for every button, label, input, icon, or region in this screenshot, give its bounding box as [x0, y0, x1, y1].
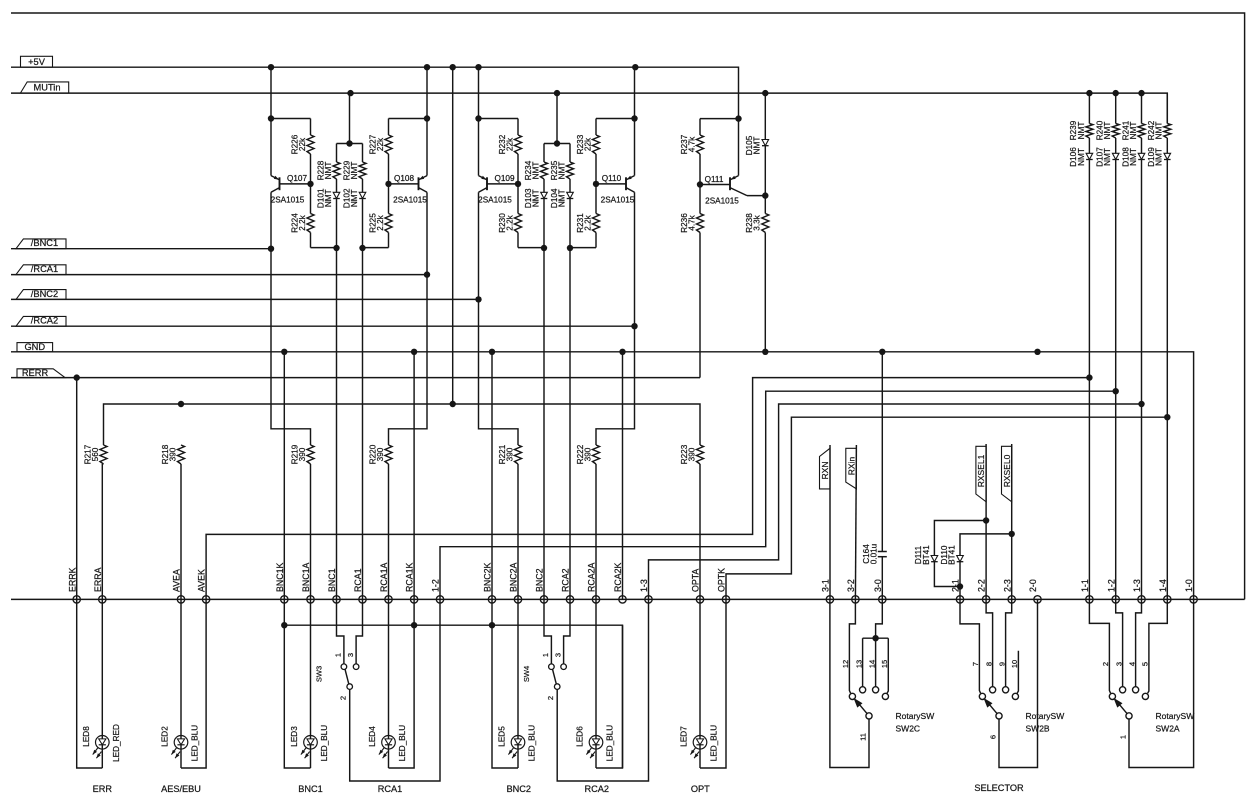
svg-text:22k: 22k [376, 137, 385, 151]
svg-text:2: 2 [546, 696, 555, 700]
wire MUTin drop to R228/R229 tie [337, 93, 363, 143]
wire R241 drop from MUTin [1141, 93, 1143, 123]
label RotarySW SW2C [896, 711, 935, 734]
svg-text:BT41: BT41 [922, 545, 931, 565]
svg-text:NMT: NMT [531, 162, 540, 180]
wire /BNC2 [11, 298, 479, 300]
svg-text:NMT: NMT [1155, 122, 1164, 140]
resistor R217 560 [83, 444, 107, 599]
svg-text:RCA1A: RCA1A [379, 563, 389, 592]
node GND junction BNC2K [489, 349, 495, 355]
pin 2-1 connector node [951, 579, 964, 603]
svg-text:NMT: NMT [324, 189, 333, 207]
svg-text:560: 560 [91, 447, 100, 461]
svg-text:BNC2: BNC2 [507, 784, 532, 794]
wire /BNC1 [11, 248, 271, 250]
rotary switch SW2B contact 7 [971, 662, 985, 700]
diode D105 NMT [745, 93, 769, 196]
svg-text:LED5: LED5 [498, 726, 507, 747]
pin 1-3 connector node [1132, 579, 1145, 603]
wire R237 top link [700, 118, 739, 120]
node +5V junction at Q109 feed [475, 64, 481, 70]
svg-text:NMT: NMT [1103, 122, 1112, 140]
pin OPTK connector node [717, 568, 730, 603]
resistor R234 NMT [524, 144, 548, 193]
svg-text:RCA1: RCA1 [378, 784, 403, 794]
signal RXin flag [846, 448, 857, 489]
wire LED6 cathode loop [596, 625, 623, 768]
svg-text:SELECTOR: SELECTOR [974, 783, 1024, 793]
svg-text:LED7: LED7 [680, 726, 689, 747]
switch SW4 blade [553, 669, 557, 684]
svg-text:1-2: 1-2 [431, 579, 441, 592]
signal RXSEL1 flag [976, 446, 986, 502]
wire BNC2 column to connector [543, 248, 545, 599]
diode D101 NMT [316, 188, 340, 248]
wire 1-3 to SW2A contact 4 [1136, 599, 1142, 686]
svg-text:AVEK: AVEK [197, 569, 207, 592]
wire top link to R232 [479, 118, 519, 120]
pin 1-3 connector node [639, 579, 652, 603]
svg-text:NMT: NMT [1129, 122, 1138, 140]
svg-text:3-0: 3-0 [873, 579, 883, 592]
rotary switch SW2B contact 10 [1010, 660, 1019, 700]
svg-text:NMT: NMT [557, 189, 566, 207]
wire /RCA1 [11, 274, 427, 276]
diode D104 NMT [550, 188, 574, 248]
node GND junction RCA2K [619, 349, 625, 355]
wire RCA1K drop from GND [413, 352, 415, 600]
svg-text:LED_RED: LED_RED [112, 724, 121, 762]
wire Q109 collector to R221 [479, 299, 519, 445]
rotary switch SW2C wiper contact 11 [859, 713, 873, 741]
resistor R221 390 [498, 444, 522, 599]
wire AVEK drop from GND [283, 352, 285, 600]
wire D106 chain down to connector [1088, 378, 1090, 600]
wire RCA1A anode column [388, 599, 390, 768]
svg-text:RXN: RXN [820, 462, 830, 480]
svg-text:390: 390 [583, 447, 592, 461]
resistor R232 22k [498, 119, 522, 184]
svg-text:4.7k: 4.7k [687, 136, 696, 152]
node junction tie R234/R235 [554, 140, 560, 146]
signal MUTin flag [20, 82, 68, 93]
resistor R238 3.3k [745, 196, 769, 352]
wire D108 chain down to connector [1141, 404, 1143, 599]
resistor R235 NMT [550, 144, 574, 193]
node cathode rail junction BNC2K [489, 622, 495, 628]
svg-text:RERR: RERR [22, 368, 49, 378]
svg-text:LED3: LED3 [290, 726, 299, 747]
wire R240 drop from MUTin [1115, 93, 1117, 123]
wire Q110 emitter from +5V [634, 67, 636, 118]
label RotarySW SW2B [1026, 711, 1065, 734]
pin BNC2K connector node [483, 563, 496, 604]
node SW2C tie junction [872, 635, 878, 641]
node junction Q111 emitter [735, 115, 741, 121]
rotary switch SW2A contact 2 [1101, 662, 1115, 700]
wire R231 bottom elbow [570, 247, 596, 249]
wire base Q108 [389, 183, 419, 185]
power net +5V label box [21, 56, 53, 67]
rotary switch SW2A wiper contact 1 [1119, 713, 1133, 739]
wire RCA1 column to connector [362, 248, 364, 599]
resistor R220 390 [368, 444, 392, 599]
node base junction Q111 [697, 181, 703, 187]
node +5V junction at Q107 feed [268, 64, 274, 70]
rotary switch SW2B blade arrow [983, 698, 996, 713]
svg-text:/BNC2: /BNC2 [31, 289, 58, 299]
resistor R223 390 [680, 444, 704, 599]
svg-text:2.2k: 2.2k [583, 214, 592, 230]
svg-text:LED8: LED8 [82, 726, 91, 747]
rotary switch SW2C blade arrow [853, 698, 866, 713]
pin RCA2A connector node [587, 563, 600, 604]
node junction D101 bottom [333, 245, 339, 251]
svg-text:LED2: LED2 [161, 726, 170, 747]
wire base Q107 [280, 183, 311, 185]
svg-text:RotarySW: RotarySW [1026, 711, 1065, 721]
pin 1-2 connector node [1106, 579, 1119, 603]
svg-text:NMT: NMT [753, 137, 762, 155]
node junction /RCA2 at Q110 collector [631, 323, 637, 329]
svg-text:RCA2A: RCA2A [587, 563, 597, 592]
svg-text:0.01u: 0.01u [870, 543, 879, 564]
svg-text:LED_BLU: LED_BLU [710, 725, 719, 761]
svg-text:SW4: SW4 [522, 666, 531, 682]
wire SW3 pin1 lead [337, 599, 344, 664]
wire 3-0 to SW2C contacts tie [876, 599, 883, 686]
pin 3-2 connector node [846, 579, 859, 603]
resistor R222 390 [576, 444, 600, 599]
svg-text:NMT: NMT [1077, 122, 1086, 140]
switch SW3 blade [345, 669, 349, 684]
svg-text:6: 6 [989, 735, 998, 739]
pin 3-1 connector node [821, 579, 834, 603]
resistor R241 NMT [1121, 120, 1145, 153]
pin RCA1 connector node [353, 568, 366, 603]
rotary switch SW2A blade arrow [1113, 698, 1126, 713]
svg-text:RotarySW: RotarySW [896, 711, 935, 721]
signal RXSEL0 flag [1002, 446, 1012, 502]
node MUTin junction at D105 [762, 90, 768, 96]
pin OPTA connector node [691, 569, 704, 604]
wire RCA2K drop from GND [622, 352, 624, 600]
svg-text:1: 1 [541, 653, 550, 657]
pin ERRA connector node [93, 567, 106, 603]
svg-text:2-2: 2-2 [977, 579, 987, 592]
svg-text:1-2: 1-2 [1106, 579, 1116, 592]
wire LED cathode rail [284, 625, 622, 768]
node junction emitter Q110 [631, 115, 637, 121]
wire AVEA anode column [180, 599, 182, 768]
wire R230 bottom elbow [518, 247, 544, 249]
pin 2-0 connector node [1028, 579, 1041, 603]
wire net 1-1 route AVEK to D106 chain [206, 378, 1089, 600]
pin 2-2 connector node [977, 579, 990, 603]
svg-text:/RCA2: /RCA2 [31, 316, 58, 326]
svg-text:BNC1A: BNC1A [301, 563, 311, 592]
svg-text:1-3: 1-3 [639, 579, 649, 592]
wire GND rail [11, 352, 1194, 600]
label RCA1 [378, 784, 403, 794]
svg-text:LED6: LED6 [576, 726, 585, 747]
pin 1-2 connector node [431, 579, 444, 603]
border frame top and right [11, 13, 1245, 599]
node junction tie R228/R229 [346, 140, 352, 146]
pin AVEK connector node [197, 569, 210, 603]
resistor R224 2.2k [290, 184, 314, 248]
wire 1-1 to SW2A contact 2 [1089, 599, 1110, 693]
label BNC2 [507, 784, 532, 794]
wire 1-2 to SW2A contact 3 [1116, 599, 1123, 686]
rotary switch SW2B wiper contact 6 [989, 713, 1003, 739]
svg-text:BNC1: BNC1 [298, 784, 323, 794]
svg-text:LED_BLU: LED_BLU [191, 725, 200, 761]
svg-text:1-3: 1-3 [1132, 579, 1142, 592]
wire SW2C tie rail [863, 637, 889, 639]
svg-text:2-1: 2-1 [951, 579, 961, 592]
svg-text:3: 3 [553, 653, 562, 657]
wire D107 chain down to connector [1115, 391, 1117, 599]
wire net 1-4 route OPTK to D109 chain [726, 417, 1167, 599]
svg-text:2.2k: 2.2k [505, 214, 514, 230]
svg-text:NMT: NMT [350, 189, 359, 207]
wire 2-3 to SW2B contact 9 [1006, 599, 1012, 686]
node junction D102 bottom [359, 245, 365, 251]
rotary switch SW2B contact 9 [997, 662, 1008, 693]
rotary switch SW2C contact 14 [867, 660, 878, 693]
ground GND label box [17, 342, 53, 352]
wire SW2A wiper to 1-0 [1129, 599, 1194, 767]
wire SW2C contact15 lead [887, 638, 888, 693]
label RotarySW SW2A [1156, 711, 1195, 734]
diode D102 NMT [342, 188, 366, 248]
node GND junction C164 [879, 349, 885, 355]
svg-text:Q107: Q107 [287, 174, 307, 183]
resistor R233 22k [576, 119, 600, 184]
wire RERR [11, 377, 700, 379]
node +5V junction at Q110 feed [632, 64, 638, 70]
node MUTin junction cell2 [554, 90, 560, 96]
transistor Q110 2SA1015 (right) [601, 119, 635, 327]
svg-text:RXSEL1: RXSEL1 [976, 454, 986, 487]
resistor R226 22k [290, 119, 314, 184]
svg-text:ERRA: ERRA [93, 567, 103, 592]
switch SW3 contact 1 [334, 653, 347, 670]
rotary switch SW2A contact 4 [1127, 662, 1138, 693]
pin RCA1A connector node [379, 563, 392, 604]
LED LED8 LED_RED [82, 724, 121, 762]
wire LED3 cathode loop [284, 599, 310, 768]
wire base Q109 [487, 183, 518, 185]
svg-text:2SA1015: 2SA1015 [705, 196, 739, 205]
pin 1-1 connector node [1080, 579, 1093, 603]
wire BNC1A anode column [310, 599, 312, 768]
svg-text:AES/EBU: AES/EBU [161, 784, 201, 794]
wire Q109 emitter from +5V [478, 67, 480, 118]
switch SW3 wiper contact 2 [339, 684, 353, 700]
switch SW4 contact 1 [541, 653, 554, 670]
LED LED4 LED_BLU [368, 725, 407, 761]
node junction D109 chain to select route [1164, 414, 1170, 420]
rotary switch SW2C contact 13 [854, 660, 865, 693]
node MUTin junction at D108 chain [1138, 90, 1144, 96]
wire SW4 wiper out [557, 599, 648, 781]
svg-text:Q108: Q108 [394, 174, 414, 183]
node +5V junction at Q108 feed [424, 64, 430, 70]
resistor R225 2.2k [368, 184, 392, 248]
svg-text:BNC2: BNC2 [535, 568, 545, 592]
wire base Q111 [700, 184, 730, 186]
pin BNC1 connector node [327, 568, 340, 603]
node junction D103 bottom [541, 245, 547, 251]
wire ERRK column [76, 378, 78, 600]
node base junction Q110 [593, 181, 599, 187]
svg-text:RCA2K: RCA2K [613, 563, 623, 592]
svg-text:3-2: 3-2 [846, 579, 856, 592]
node MUTin junction at D106 chain [1086, 90, 1092, 96]
wire SW4 pin3 lead [564, 599, 570, 664]
resistor R227 22k [368, 119, 392, 184]
wire BNC1 column to connector [336, 248, 338, 599]
node junction Q111 collector / D105 [762, 192, 768, 198]
wire BNC2K drop from GND [491, 352, 493, 600]
wire LED5 cathode loop [492, 599, 518, 768]
svg-text:1-4: 1-4 [1158, 579, 1168, 592]
transistor Q107 2SA1015 (left) [271, 119, 308, 249]
node base junction Q108 [385, 181, 391, 187]
diode D106 NMT [1069, 147, 1093, 378]
svg-text:ERRK: ERRK [67, 567, 77, 592]
svg-text:2SA1015: 2SA1015 [393, 196, 427, 205]
rotary switch SW2A contact 5 [1141, 662, 1150, 700]
node junction D107 chain to select route [1113, 388, 1119, 394]
svg-text:390: 390 [298, 447, 307, 461]
resistor R230 2.2k [498, 184, 522, 248]
rotary switch SW2A contact 3 [1114, 662, 1125, 693]
pin ERRK connector node [67, 567, 80, 603]
svg-text:OPTK: OPTK [717, 568, 727, 592]
svg-text:AVEA: AVEA [172, 569, 182, 592]
node cathode rail junction RCA1K [411, 622, 417, 628]
node GND junction RCA1K [411, 349, 417, 355]
node MUTin junction cell1 [347, 90, 353, 96]
wire 2-1 to SW2B contact 7 [960, 599, 981, 693]
wire top link to R233 [596, 118, 635, 120]
diode D111 BT41 [914, 521, 986, 587]
resistor R218 390 [161, 444, 185, 599]
node GND junction BNC1K [281, 349, 287, 355]
label ERR [93, 784, 113, 794]
node MUTin junction at D107 chain [1113, 90, 1119, 96]
pin 1-4 connector node [1158, 579, 1171, 603]
svg-text:2.2k: 2.2k [376, 214, 385, 230]
svg-text:BNC2K: BNC2K [483, 563, 493, 592]
svg-text:22k: 22k [583, 137, 592, 151]
svg-text:RCA2: RCA2 [561, 568, 571, 592]
node junction D106 chain to select route [1086, 374, 1092, 380]
node feeder junction +5V drop [450, 401, 456, 407]
svg-text:1-1: 1-1 [1080, 579, 1090, 592]
svg-text:3: 3 [346, 653, 355, 657]
wire SW4 pin1 lead [544, 599, 551, 664]
wire +5V rail [11, 67, 739, 118]
pin 1-0 connector node [1184, 579, 1197, 603]
wire R225 bottom elbow [363, 247, 389, 249]
wire RCA2 column to connector [569, 248, 571, 599]
svg-text:NMT: NMT [1077, 148, 1086, 166]
wire BNC2A anode column [517, 599, 519, 768]
LED LED7 LED_BLU [680, 725, 719, 761]
wire SW2C wiper to 3-1 [830, 599, 869, 767]
pin 3-0 connector node [873, 579, 886, 603]
signal RERR flag [17, 368, 65, 378]
transistor Q111 2SA1015 (right) [705, 119, 766, 206]
wire SW2C contact13 lead [862, 638, 864, 687]
resistor R229 NMT [342, 144, 366, 193]
svg-text:2-3: 2-3 [1002, 579, 1012, 592]
wire D109 chain down to connector [1166, 417, 1168, 599]
svg-text:OPT: OPT [691, 784, 710, 794]
label SW3 [315, 666, 324, 682]
wire LED2 cathode loop [181, 599, 206, 768]
svg-text:/BNC1: /BNC1 [31, 238, 58, 248]
svg-text:+5V: +5V [28, 57, 46, 67]
wire OPTA anode column [699, 599, 701, 768]
label RCA2 [584, 784, 609, 794]
pin 2-3 connector node [1002, 579, 1015, 603]
node junction /BNC2 at Q109 collector [475, 296, 481, 302]
wire R242 drop from MUTin [1166, 93, 1168, 123]
svg-text:11: 11 [859, 733, 868, 741]
node +5V junction to resistor rail [450, 64, 456, 70]
svg-text:NMT: NMT [350, 162, 359, 180]
switch SW4 wiper contact 2 [546, 684, 560, 700]
wire Q107 collector to R219 [271, 249, 311, 445]
svg-text:LED_BLU: LED_BLU [320, 725, 329, 761]
node GND junction R238 [762, 349, 768, 355]
wire RXin to 3-2 [855, 445, 856, 599]
resistor R228 NMT [316, 144, 340, 193]
svg-text:4.7k: 4.7k [687, 214, 696, 230]
svg-text:2: 2 [339, 696, 348, 700]
resistor R240 NMT [1096, 120, 1120, 153]
diode D110 BT41 [940, 534, 1012, 600]
svg-text:390: 390 [376, 447, 385, 461]
pin RCA2K connector node [613, 563, 626, 604]
node GND junction 2-0 [1034, 349, 1040, 355]
svg-text:390: 390 [505, 447, 514, 461]
LED LED2 LED_BLU [161, 725, 200, 761]
wire LED4 cathode loop [389, 599, 415, 768]
wire +5V feeder drop [452, 67, 454, 404]
svg-text:BNC1K: BNC1K [275, 563, 285, 592]
node cathode rail junction BNC1K [281, 622, 287, 628]
node RERR junction ERRK [74, 374, 80, 380]
label OPT [691, 784, 710, 794]
wire MUTin rail [11, 93, 1167, 123]
svg-text:LED_BLU: LED_BLU [398, 725, 407, 761]
svg-text:RXin: RXin [846, 457, 856, 476]
svg-text:2SA1015: 2SA1015 [271, 196, 305, 205]
wire /RCA2 [11, 325, 635, 327]
svg-text:SW2C: SW2C [896, 724, 921, 734]
wire Q110 collector to R222 [596, 326, 635, 445]
svg-text:2-0: 2-0 [1028, 579, 1038, 592]
transistor Q109 2SA1015 (left) [478, 119, 515, 300]
pin BNC2 connector node [535, 568, 548, 603]
